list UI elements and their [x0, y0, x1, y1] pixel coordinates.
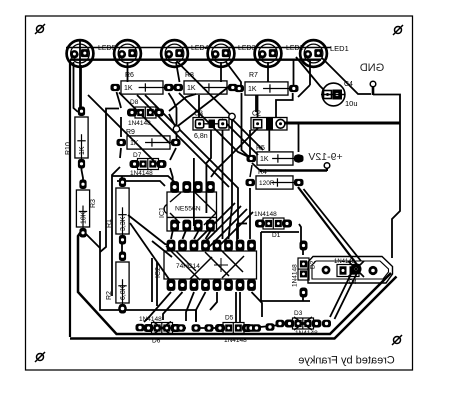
junction on R5 right pad [294, 154, 302, 162]
wire [121, 176, 123, 182]
capacitor C2 [251, 111, 287, 131]
IC2 [155, 240, 257, 291]
pad/junction [205, 324, 214, 332]
wire [171, 231, 173, 239]
wire [83, 231, 100, 248]
wire [195, 193, 216, 214]
pad/junction [177, 324, 186, 332]
svg-text:D1: D1 [272, 232, 281, 239]
svg-text:1K: 1K [260, 156, 269, 163]
wire [112, 167, 120, 296]
svg-text:10K: 10K [81, 211, 88, 224]
pad/junction [322, 320, 331, 328]
wire [120, 117, 122, 137]
pad/junction [136, 324, 145, 332]
wire [257, 95, 259, 117]
wire [163, 292, 183, 320]
op-amp/timer IC1 NE556N [159, 181, 217, 231]
LED LED1 [286, 40, 327, 67]
diode D8 [127, 99, 164, 127]
wire [302, 249, 304, 255]
mounting hole bottom-left [35, 352, 45, 362]
wire [222, 256, 244, 278]
+9-12V terminal [308, 151, 342, 168]
wire [235, 292, 237, 322]
wire [197, 203, 235, 241]
wire [177, 85, 232, 127]
pad/junction [252, 324, 261, 332]
resistor R5 [247, 145, 304, 165]
wire [236, 224, 238, 243]
wire [276, 93, 293, 118]
capacitor C4 [321, 81, 358, 108]
svg-text:R9: R9 [126, 129, 135, 136]
svg-text:D7: D7 [133, 152, 142, 159]
wire [206, 130, 211, 213]
diode D3 [285, 310, 322, 337]
wire [322, 58, 371, 94]
GND terminal [360, 62, 385, 87]
wire [335, 274, 357, 319]
LED LED6 [67, 40, 94, 67]
wire [190, 257, 212, 279]
wire [170, 168, 173, 182]
wire [193, 158, 195, 226]
wire [144, 327, 186, 329]
wire [121, 240, 123, 257]
svg-text:D4: D4 [349, 280, 357, 286]
wire [293, 59, 295, 85]
wire [119, 93, 170, 144]
R2 bottom round pad [118, 304, 127, 313]
resistor R6 [111, 72, 174, 94]
svg-text:LED1: LED1 [330, 44, 349, 53]
wire [249, 130, 251, 157]
pad/junction [266, 323, 275, 331]
svg-text:1N4148: 1N4148 [254, 211, 277, 218]
svg-text:1K: 1K [124, 85, 133, 92]
wire [100, 231, 196, 322]
wire [176, 251, 196, 271]
wire [215, 212, 253, 250]
diode D1 [254, 211, 292, 239]
mounting hole top-right [393, 25, 403, 35]
wire [137, 95, 229, 187]
diode D7 [130, 152, 167, 177]
svg-text:R6: R6 [125, 72, 134, 79]
wire [252, 163, 260, 171]
wire [304, 189, 362, 261]
wire [220, 62, 222, 82]
wire [78, 229, 391, 334]
wire [284, 323, 290, 325]
board frame [26, 16, 413, 370]
svg-text:6,8K: 6,8K [120, 285, 127, 300]
wire [205, 252, 229, 276]
wire [179, 93, 250, 158]
wire [79, 39, 81, 110]
wire [167, 216, 216, 218]
svg-text:Created by Frankye: Created by Frankye [298, 355, 395, 367]
wire [242, 93, 249, 156]
svg-text:1N4148: 1N4148 [295, 330, 318, 337]
wire [177, 61, 233, 117]
wire [100, 109, 119, 253]
diode D2 [292, 241, 317, 298]
svg-text:3,3K: 3,3K [120, 216, 127, 231]
svg-text:R4: R4 [258, 169, 267, 176]
wire [112, 176, 175, 182]
wire [211, 127, 259, 177]
wire [166, 246, 200, 280]
wire [237, 223, 247, 225]
svg-text:C4: C4 [344, 81, 353, 88]
svg-text:C3: C3 [194, 111, 203, 118]
svg-text:1K: 1K [79, 146, 86, 155]
wire [255, 95, 257, 112]
wire [249, 188, 251, 239]
wire [88, 95, 160, 167]
wire [330, 272, 352, 317]
wire [204, 213, 216, 225]
wire [299, 224, 301, 243]
svg-text:NE556N: NE556N [175, 206, 201, 213]
svg-text:LED3: LED3 [238, 45, 256, 52]
wire [186, 292, 194, 321]
svg-text:C2: C2 [252, 111, 261, 118]
resistor R3 [76, 180, 97, 238]
wire [261, 231, 299, 233]
resistor R4 [246, 169, 304, 189]
wire [298, 124, 300, 152]
wire [222, 130, 224, 239]
wire [226, 62, 241, 86]
svg-text:R1: R1 [106, 219, 113, 228]
svg-text:1N4148: 1N4148 [139, 316, 162, 323]
LED LED2 [238, 40, 281, 67]
pad/junction [276, 320, 285, 328]
wire [206, 231, 211, 239]
wire [298, 85, 310, 97]
wire [117, 92, 122, 108]
wire [309, 59, 311, 85]
wire [229, 120, 233, 239]
diode D4 [322, 259, 378, 286]
wire [145, 95, 238, 239]
wire [261, 232, 310, 301]
svg-text:1N4148: 1N4148 [224, 337, 247, 344]
resistor R1 [106, 178, 129, 245]
svg-text:D8: D8 [130, 99, 139, 106]
pad/junction [247, 324, 256, 332]
wire [169, 93, 177, 125]
wire [120, 148, 121, 158]
LED LED3 [191, 40, 234, 67]
wire [74, 62, 79, 112]
pad/junction [192, 324, 201, 332]
svg-text:D3: D3 [294, 310, 303, 317]
wire [260, 169, 327, 172]
capacitor C3 [193, 111, 229, 141]
wire [69, 60, 71, 337]
svg-text:1K: 1K [130, 140, 139, 147]
wire [152, 241, 172, 257]
svg-text:1N4148: 1N4148 [292, 264, 299, 287]
wire [117, 181, 165, 186]
wire [268, 130, 270, 151]
svg-text:LED5: LED5 [98, 45, 116, 52]
wire [170, 213, 180, 223]
svg-text:+9-12V: +9-12V [308, 151, 342, 163]
wire [230, 117, 263, 150]
wire [250, 325, 280, 328]
wire [169, 114, 175, 126]
wire [285, 122, 400, 125]
wire [196, 292, 206, 321]
mounting hole top-left [35, 24, 45, 34]
svg-text:IC1: IC1 [159, 207, 166, 218]
wire [170, 193, 181, 203]
wire [70, 59, 321, 61]
wire [170, 148, 176, 160]
svg-text:LED4: LED4 [191, 45, 209, 52]
wire [203, 206, 241, 244]
svg-text:R8: R8 [185, 72, 194, 79]
diode D6 [139, 316, 181, 345]
wire [169, 94, 196, 111]
wire [372, 87, 375, 95]
svg-text:IC2: IC2 [155, 267, 162, 278]
via [173, 126, 179, 132]
wire [176, 133, 178, 141]
wire [130, 223, 171, 282]
wire [127, 62, 129, 82]
svg-text:10u: 10u [345, 99, 358, 108]
wire [128, 215, 171, 246]
resistor R9 [117, 129, 181, 149]
resistor R7 [235, 72, 299, 95]
svg-text:R10: R10 [65, 142, 72, 155]
net outline around D4 [308, 257, 393, 284]
wire [302, 288, 304, 301]
wire [196, 327, 216, 329]
svg-text:D6: D6 [152, 338, 161, 345]
svg-text:R7: R7 [249, 72, 258, 79]
svg-text:GND: GND [360, 62, 385, 74]
svg-text:R5: R5 [256, 145, 265, 152]
svg-text:R3: R3 [90, 199, 97, 208]
svg-text:1K: 1K [248, 86, 257, 93]
wire [222, 119, 258, 155]
wire [144, 292, 171, 322]
wire [250, 165, 252, 177]
wire [66, 47, 331, 49]
via [229, 113, 235, 119]
resistor R2 [106, 252, 129, 314]
wire [176, 62, 180, 82]
wire [210, 292, 217, 310]
svg-text:1K: 1K [187, 85, 196, 92]
wire [267, 62, 269, 82]
diode D5 [215, 315, 252, 345]
svg-text:120R: 120R [259, 180, 275, 187]
wire [217, 246, 243, 272]
svg-text:1N4148: 1N4148 [128, 120, 151, 127]
wire [70, 277, 397, 339]
wire [373, 95, 400, 259]
wire [298, 187, 358, 266]
resistor R8 [174, 72, 238, 94]
svg-text:74HC14: 74HC14 [176, 263, 200, 270]
svg-text:6,8n: 6,8n [194, 133, 208, 140]
wire [296, 57, 324, 90]
resistor R10 [65, 107, 88, 169]
svg-text:LED2: LED2 [286, 45, 304, 52]
LED LED4 [161, 40, 188, 67]
wire [183, 231, 186, 239]
wire [252, 292, 263, 317]
wire [82, 160, 84, 186]
wire [156, 262, 158, 306]
wire [198, 95, 200, 117]
mounting hole bottom-right [392, 335, 402, 345]
wire [239, 292, 241, 322]
wire [194, 231, 198, 239]
wire [326, 168, 328, 171]
wire [209, 209, 247, 247]
svg-text:1N4148: 1N4148 [130, 170, 153, 177]
wire [151, 258, 153, 302]
svg-text:1N4148: 1N4148 [334, 259, 356, 265]
LED LED5 [98, 40, 141, 67]
svg-text:D5: D5 [225, 315, 234, 322]
svg-text:R2: R2 [106, 291, 113, 300]
wire [80, 65, 82, 108]
